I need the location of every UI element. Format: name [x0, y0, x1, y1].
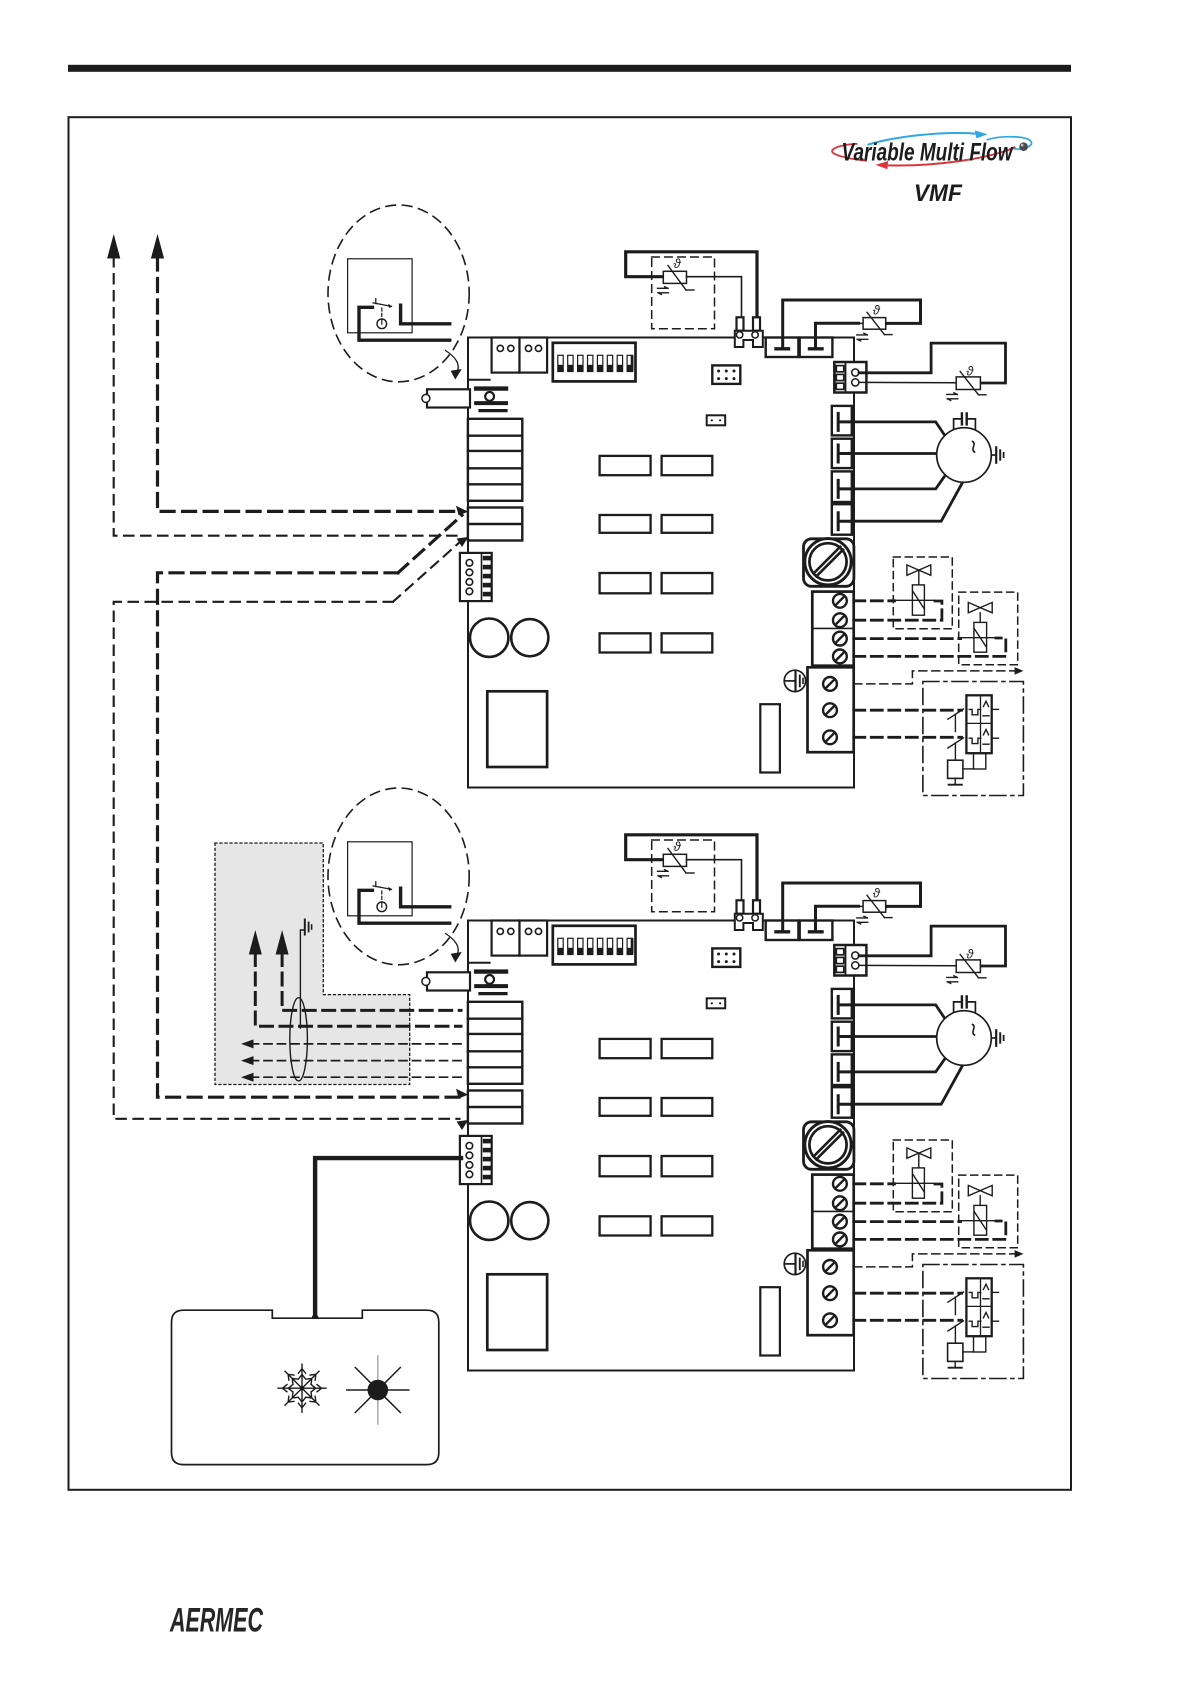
logo: red left hook [832, 144, 866, 161]
arrowhead: bus arrow A (up) [107, 234, 120, 259]
changeover probe box (rounded) [172, 1310, 439, 1464]
wire: thin bus line A down and into board1 strip [114, 257, 460, 536]
wire: thin diagonal merge into board1 [393, 541, 461, 602]
wire: return line 2 with left arrow [253, 1060, 461, 1062]
arrowhead: riser arrow 1 (up) [249, 930, 262, 955]
wire: thin bus link board1 to board2 [114, 602, 460, 1119]
logo: blue loop around globe [988, 137, 1032, 149]
wire: riser 1 dashed to board2 strip row2 [255, 954, 461, 1027]
shaded cable zone [215, 843, 410, 1085]
arrowhead: bus arrow B (up) [151, 234, 164, 259]
top rule bar [68, 65, 1071, 72]
wire: bold bus link board1 to board2 [158, 573, 460, 1097]
cable bundle ellipse [290, 998, 308, 1081]
svg-text:Variable Multi Flow: Variable Multi Flow [842, 138, 1014, 166]
logo: red swoosh [888, 147, 1015, 165]
fan coil PCB board 2 [328, 788, 1023, 1379]
snowflake icon [278, 1364, 326, 1412]
arrowhead: riser arrow 2 (up) [276, 930, 289, 955]
wire: bold line from CN1 to changeover probe [315, 1158, 461, 1317]
sun icon [347, 1356, 409, 1424]
wire: bold bus line B down and into board1 strip [158, 257, 460, 511]
wire: return line 1 with left arrow [253, 1043, 461, 1045]
fan coil PCB board 1 [328, 205, 1023, 796]
svg-text:AERMEC: AERMEC [169, 1602, 263, 1640]
page frame [69, 117, 1072, 1490]
wire: bold diagonal merge into board1 [398, 515, 462, 573]
wire: riser 2 dashed to board2 strip row1 [282, 954, 461, 1011]
wire: return line 3 with left arrow [253, 1076, 461, 1078]
logo: blue swoosh [869, 133, 978, 144]
svg-text:VMF: VMF [914, 180, 963, 207]
logo: globe [1019, 142, 1028, 151]
shield ground symbol with drop line [300, 920, 311, 1029]
